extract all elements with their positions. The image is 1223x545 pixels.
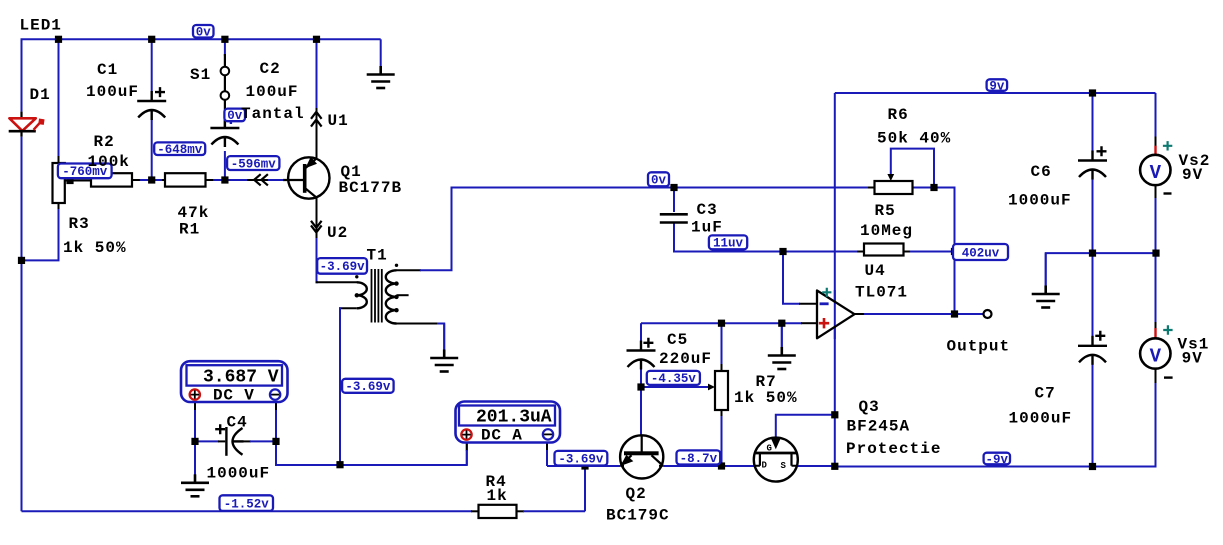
node 9v rail / C6 — [1089, 89, 1096, 96]
wire Vs1 plus red tick — [1154, 328, 1156, 337]
svg-text:1k 50%: 1k 50% — [734, 389, 798, 407]
svg-text:Q3: Q3 — [859, 398, 880, 416]
wire chevrons to Q1 base — [268, 179, 284, 181]
base current chevrons << — [254, 174, 268, 185]
svg-text:-596mv: -596mv — [231, 157, 277, 171]
wire C5 node to R7 wiper — [641, 386, 708, 388]
value label -3.69v (below T1) — [342, 379, 394, 394]
node supply / -9v rail — [831, 463, 838, 470]
node mid rail / C6 C7 — [1089, 250, 1096, 257]
svg-text:47k: 47k — [178, 204, 210, 222]
output terminal circle — [984, 310, 992, 318]
svg-text:C2: C2 — [260, 60, 281, 78]
wire T1 secondary top lead to long 0v wire — [420, 188, 875, 271]
transistor Q3 BF245A (JFET) — [754, 438, 798, 482]
wire T1 secondary bottom lead to ground — [437, 324, 444, 357]
svg-text:50k 40%: 50k 40% — [877, 130, 951, 148]
wire opamp output — [864, 313, 984, 315]
svg-text:1000uF: 1000uF — [1009, 410, 1073, 428]
wire Q3 gate from supply column — [776, 415, 835, 438]
node bottom wire / T1 primary — [336, 461, 343, 468]
wire Vs2 plus red tick — [1154, 146, 1156, 155]
wire Vs1 bottom stub — [1155, 369, 1157, 384]
node emitter wire / R4 riser — [581, 462, 588, 469]
svg-text:R5: R5 — [875, 202, 896, 220]
svg-text:1000uF: 1000uF — [207, 465, 271, 483]
op-amp inverting input marker (blue minus) — [820, 302, 829, 305]
svg-text:V: V — [1150, 345, 1162, 367]
resistor R3 body — [53, 163, 65, 203]
wire T1 primary top lead black — [316, 281, 358, 283]
op-amp U4 outline — [817, 291, 855, 339]
wire C6 bottom to mid rail — [1092, 178, 1094, 253]
svg-text:C3: C3 — [697, 201, 718, 219]
wire Vs2 top from 9v rail — [1155, 93, 1157, 138]
node plus input ground — [778, 320, 785, 327]
svg-text:C7: C7 — [1035, 385, 1056, 403]
wire Q1 collector black stub — [316, 108, 318, 159]
wire R6 left lead stub — [868, 187, 875, 189]
wire R2 to R1 — [140, 179, 164, 181]
wire opamp inverting input black stub — [799, 303, 817, 305]
svg-text:U2: U2 — [327, 224, 348, 242]
svg-text:100uF: 100uF — [86, 83, 139, 101]
wire R5 left lead stub — [857, 251, 865, 253]
ground top right — [380, 39, 382, 67]
svg-text:R1: R1 — [179, 221, 200, 239]
node C5 bottom / R7 wiper — [637, 383, 644, 390]
wire C7 drop from mid rail — [1092, 253, 1094, 338]
wire C4 right node wire — [250, 440, 276, 442]
svg-text:100uF: 100uF — [246, 83, 299, 101]
wire Vs1 to -9v rail corner — [835, 383, 1156, 467]
wire R3 branch from top rail — [58, 39, 60, 157]
svg-text:U1: U1 — [328, 112, 349, 130]
node C4 left — [191, 438, 198, 445]
wire R5 right lead stub — [903, 251, 911, 253]
svg-text:BF245A: BF245A — [847, 418, 911, 436]
node output / feedback — [951, 310, 958, 317]
node mid rail / Vs column — [1152, 250, 1159, 257]
wire Q1 emitter blue to T1 primary — [317, 238, 319, 282]
svg-text:0v: 0v — [651, 174, 667, 188]
wire Vs2 to mid rail to Vs1 — [1155, 198, 1157, 324]
wire R7 top lead stub — [721, 363, 723, 370]
resistor R5 10Meg — [864, 244, 904, 256]
wire C4 right plate stub — [244, 440, 252, 442]
wire 11uv node down to opamp inverting input — [783, 252, 800, 304]
wire opamp supply column x=835 — [834, 93, 836, 466]
svg-text:9V: 9V — [1182, 166, 1203, 184]
T1 phase dot secondary — [395, 264, 398, 267]
wire C7 bottom to -9v rail — [1092, 364, 1094, 467]
wire opamp output black stub — [855, 313, 866, 315]
svg-text:Tantal: Tantal — [241, 105, 305, 123]
wire T1 secondary bottom lead black — [397, 323, 439, 325]
svg-text:C4: C4 — [227, 414, 248, 432]
wire C5 top drop — [640, 323, 642, 349]
svg-text:-648mv: -648mv — [157, 143, 203, 157]
node supply / gate wire — [831, 411, 838, 418]
svg-text:DC V: DC V — [213, 387, 255, 405]
value label -4.35v — [647, 371, 700, 387]
wire R7 bottom lead stub — [721, 409, 723, 417]
node D1 line / R3 bottom — [18, 257, 25, 264]
wire C3 bottom to 11uv node — [674, 223, 783, 252]
wire ammeter minus lead stub — [546, 443, 548, 451]
resistor R7 wiper arrow — [708, 384, 715, 391]
value label 0v (long wire) — [648, 172, 669, 187]
wire C5 bottom to Q2 base — [640, 368, 642, 436]
wire T1 primary bottom to bottom net — [339, 307, 341, 464]
voltage arrow U2 (down chevrons) — [311, 221, 322, 233]
svg-text:BC177B: BC177B — [339, 179, 403, 197]
wire Q1 emitter down to T1 — [316, 197, 318, 240]
capacitor C5 symbol — [627, 338, 656, 370]
transformer T1 — [357, 269, 397, 324]
svg-text:-3.69v: -3.69v — [345, 380, 391, 394]
value label -3.69v (T1 primary top) — [317, 258, 367, 274]
wire opamp non-inverting input black stub — [801, 322, 817, 324]
wire 9v rail — [835, 92, 1156, 94]
value label -8.7v — [677, 450, 721, 466]
node long wire / C3 — [670, 184, 677, 191]
wire top 0v rail — [22, 39, 381, 511]
svg-text:S1: S1 — [190, 66, 211, 84]
wire R6 right lead — [913, 187, 955, 189]
resistor R7 body — [715, 371, 728, 410]
resistor R3 wiper arrow — [65, 177, 72, 184]
wire 11uv node to R5 left — [783, 251, 858, 253]
wire bottom rail R4 to riser — [523, 510, 585, 512]
svg-text:11uv: 11uv — [713, 237, 744, 251]
wire C2 bottom to base node — [224, 151, 226, 180]
svg-text:1000uF: 1000uF — [1008, 192, 1072, 210]
wire ammeter plus lead — [466, 450, 468, 465]
T1 phase dot primary — [355, 275, 358, 278]
svg-text:3.687 V: 3.687 V — [203, 367, 279, 387]
svg-text:100k: 100k — [88, 153, 130, 171]
wire C4 net bottom wire to ammeter plus — [276, 441, 467, 465]
svg-text:R3: R3 — [69, 215, 90, 233]
op-amp non-inverting input marker (red plus) — [819, 318, 829, 328]
svg-text:R6: R6 — [888, 106, 909, 124]
value label 0v (top rail) — [193, 25, 214, 40]
wire Q1 collector to top rail — [316, 39, 318, 110]
wire T1 center tap stub — [397, 294, 409, 296]
value label -1.52v — [220, 495, 274, 511]
svg-text:U4: U4 — [865, 262, 886, 280]
svg-text:1k 50%: 1k 50% — [63, 239, 127, 257]
node base / C2 — [221, 176, 228, 183]
wire Vs2 bottom stub — [1155, 185, 1157, 200]
capacitor C1 symbol — [137, 87, 166, 120]
wire R3 bottom to D1 line — [22, 209, 59, 260]
wire T1 secondary top lead black — [397, 269, 422, 271]
wire voltmeter plus lead stub — [194, 402, 196, 412]
wire R6 wiper loop — [891, 149, 934, 188]
svg-text:1k: 1k — [487, 487, 508, 505]
node top rail / C1 — [148, 36, 155, 43]
value label 0v (S1/C2) — [224, 109, 245, 124]
switch S1 — [221, 54, 230, 127]
node top rail / Q1 collector — [313, 36, 320, 43]
svg-text:V: V — [1150, 162, 1162, 184]
node top rail / S1 — [221, 36, 228, 43]
transistor Q2 BC179C — [620, 435, 663, 478]
op-amp V+ marker (teal plus) — [822, 288, 831, 297]
value label -3.69v (emitter wire) — [555, 451, 608, 467]
svg-text:-3.69v: -3.69v — [558, 453, 604, 467]
wire C5 net to opamp non-inverting input — [641, 322, 802, 324]
resistor R6 wiper arrow — [887, 174, 894, 181]
wire R4 riser — [584, 466, 586, 511]
capacitor C2 symbol — [210, 118, 239, 147]
svg-text:BC179C: BC179C — [606, 507, 670, 525]
wire R1 right lead — [206, 179, 215, 181]
capacitor C3 1uF (non-polarized) — [660, 214, 688, 222]
svg-text:Output: Output — [947, 338, 1011, 356]
value label -648mv — [154, 142, 205, 157]
wire Vs2 top black stub — [1155, 137, 1157, 155]
svg-text:-1.52v: -1.52v — [224, 497, 270, 511]
wire R3 top lead stub — [58, 156, 60, 164]
node Q2 collector wire / R7 bottom — [718, 462, 725, 469]
wire bottom rail left of R4 — [22, 510, 473, 512]
wire feedback column — [934, 188, 955, 315]
value label 402uv — [953, 244, 1008, 260]
svg-text:220uF: 220uF — [659, 350, 712, 368]
ground mid rail right — [1045, 253, 1047, 286]
wire mid rail to ground — [1046, 253, 1156, 292]
ground opamp plus input — [781, 323, 783, 348]
svg-text:9V: 9V — [1182, 349, 1203, 367]
svg-text:-4.35v: -4.35v — [651, 372, 697, 386]
svg-text:10Meg: 10Meg — [860, 222, 913, 240]
svg-text:-3.69v: -3.69v — [320, 260, 366, 274]
svg-text:G: G — [767, 444, 772, 454]
wire Q2 emitter segment from ammeter minus — [547, 465, 620, 467]
voltage arrow U1 (up chevrons) — [311, 112, 322, 127]
svg-text:LED1: LED1 — [20, 16, 62, 34]
wire R1 to base chevrons — [213, 179, 248, 181]
node 11uv — [779, 248, 786, 255]
wire voltmeter minus lead stub — [275, 402, 277, 412]
wire ground drop at opamp plus input — [781, 323, 783, 354]
svg-text:Q2: Q2 — [626, 485, 647, 503]
voltage source Vs1 9V — [1140, 325, 1172, 377]
wire voltmeter plus lead — [194, 410, 196, 441]
wire C1 bottom to base node — [151, 119, 153, 180]
svg-text:TL071: TL071 — [855, 284, 908, 302]
transistor Q1 BC177B — [283, 157, 329, 199]
wire S1 branch from top rail — [224, 39, 226, 56]
node R6 wiper / right lead — [930, 184, 937, 191]
wire R7 top lead — [721, 323, 723, 364]
svg-text:Protectie: Protectie — [846, 440, 941, 458]
wire R4 right lead stub — [516, 510, 524, 512]
wire R3 bottom lead stub — [58, 202, 60, 210]
value label 11uv — [709, 235, 747, 251]
svg-text:S: S — [781, 461, 787, 471]
wire C4 left node wire — [195, 440, 219, 442]
wire C6 drop from 9v rail — [1092, 93, 1094, 159]
op-amp supply line crossing — [834, 290, 836, 339]
value label -9v — [984, 453, 1010, 467]
node -9v rail / C7 — [1089, 463, 1096, 470]
svg-text:D: D — [762, 461, 768, 471]
wire Q2 collector to Q3 drain — [663, 465, 754, 467]
svg-text:R2: R2 — [94, 133, 115, 151]
voltage source Vs2 9V — [1140, 141, 1172, 193]
resistor R2 100k — [91, 173, 132, 186]
resistor R6 body (pot 50k 40%) — [875, 181, 913, 194]
wire Vs1 top black stub — [1155, 322, 1157, 338]
wire R1 left lead — [162, 179, 166, 181]
resistor R4 1k — [479, 505, 517, 518]
wire C4 left plate stub — [218, 440, 225, 442]
node C5 net / R7 top — [718, 320, 725, 327]
wire C1 branch from top rail — [151, 39, 153, 92]
value label -596mv — [227, 156, 279, 171]
value label -760mv — [58, 164, 112, 180]
capacitor C4 1000uF (horizontal) — [215, 424, 243, 456]
voltmeter 3.687 V — [181, 361, 288, 405]
svg-text:0v: 0v — [196, 26, 212, 40]
wire R4 left lead stub — [471, 510, 479, 512]
op-amp U4 TL071 triangle — [817, 291, 855, 339]
svg-text:C5: C5 — [667, 331, 688, 349]
wire ammeter plus lead stub — [466, 443, 468, 451]
svg-text:1uF: 1uF — [691, 219, 723, 237]
node base / C1 — [148, 176, 155, 183]
wire R3 wiper to R2 left lead — [65, 180, 91, 182]
wire voltmeter minus lead — [275, 410, 277, 441]
value label 9v — [987, 79, 1008, 93]
svg-text:201.3uA: 201.3uA — [476, 407, 552, 427]
svg-text:-8.7v: -8.7v — [680, 452, 718, 466]
node R3 wiper / R2 — [66, 177, 73, 184]
svg-text:D1: D1 — [30, 86, 51, 104]
wire ammeter minus lead — [546, 450, 548, 466]
wire chevron segment — [247, 179, 269, 181]
wire C3 drop from long wire — [673, 188, 675, 213]
wire -9v rail from Q3 source — [798, 465, 835, 467]
ground T1 secondary — [443, 324, 445, 351]
capacitor C6 symbol — [1078, 146, 1107, 179]
svg-text:-9v: -9v — [986, 453, 1009, 467]
svg-text:402uv: 402uv — [962, 246, 1000, 260]
wire R5 right to feedback column — [910, 251, 955, 253]
ground C4 — [194, 441, 196, 475]
svg-text:C1: C1 — [97, 61, 118, 79]
capacitor C7 symbol — [1078, 331, 1107, 365]
svg-text:T1: T1 — [367, 247, 388, 265]
node R5 right / feedback — [951, 248, 958, 255]
LED D1 — [9, 112, 45, 137]
node C4 right — [272, 438, 279, 445]
svg-text:9v: 9v — [989, 79, 1005, 93]
T1 coil cusp dots — [355, 281, 399, 312]
ammeter 201.3uA — [456, 402, 561, 445]
svg-text:C6: C6 — [1031, 163, 1052, 181]
resistor R1 47k — [165, 173, 206, 186]
wire R7 bottom lead — [721, 416, 723, 466]
wire R2 right lead — [132, 179, 141, 181]
wire T1 primary bottom lead black — [339, 307, 357, 309]
node top rail / R3 — [55, 36, 62, 43]
svg-text:DC A: DC A — [481, 426, 523, 444]
